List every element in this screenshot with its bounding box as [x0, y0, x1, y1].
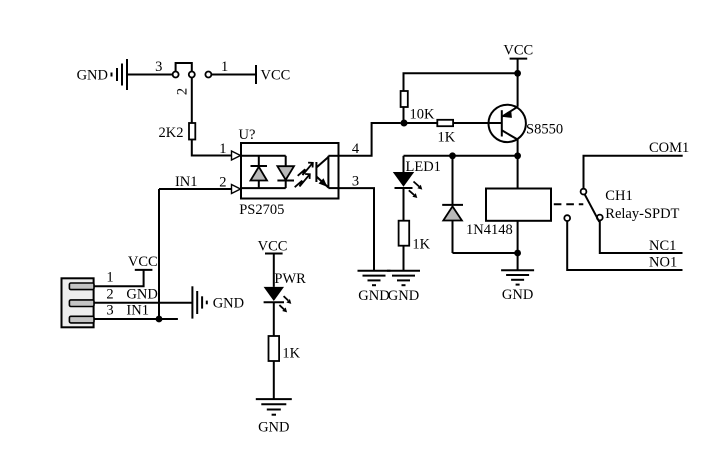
svg-text:1: 1 — [219, 141, 226, 157]
svg-text:NC1: NC1 — [649, 238, 676, 254]
wire pin3 IN1 — [94, 318, 178, 320]
ground (relay) — [501, 270, 534, 284]
svg-text:1: 1 — [221, 59, 228, 75]
svg-text:GND: GND — [388, 288, 419, 304]
wire NO1 — [567, 221, 682, 271]
U? internal input rail top — [241, 155, 286, 157]
node junction relay bottom — [514, 250, 521, 257]
node junction 10K/1K — [401, 120, 408, 127]
U? light arrow lower — [295, 174, 310, 187]
wire VCC rail to 10K top — [404, 73, 518, 91]
wire 1K to Q1 base — [453, 122, 502, 124]
connector pin 1 pad — [69, 283, 94, 290]
ground (U? pin 3) — [358, 271, 391, 285]
svg-text:1K: 1K — [282, 345, 300, 361]
wire node to 1K — [404, 122, 438, 124]
optocoupler U? box — [241, 143, 339, 199]
node junction at VCC/emitter — [514, 70, 521, 77]
jumper pin 1 circle — [205, 72, 211, 78]
ground (sideways, connector) — [192, 286, 206, 318]
jumper pin 3 circle — [173, 72, 179, 78]
ground (PWR) — [256, 399, 292, 415]
svg-text:3: 3 — [155, 59, 162, 75]
svg-text:2: 2 — [106, 286, 113, 302]
svg-text:3: 3 — [352, 173, 359, 189]
node junction diode top — [449, 152, 456, 159]
power VCC (top-right) — [510, 59, 528, 74]
svg-text:GND: GND — [213, 295, 244, 311]
svg-text:2K2: 2K2 — [159, 125, 184, 141]
relay NO contact circle — [564, 215, 570, 221]
power VCC (connector) — [135, 269, 153, 271]
svg-text:Relay-SPDT: Relay-SPDT — [605, 206, 679, 222]
node junction IN1 — [156, 316, 163, 323]
U? phototransistor — [316, 156, 338, 188]
svg-text:VCC: VCC — [261, 68, 291, 84]
svg-text:COM1: COM1 — [649, 140, 689, 156]
LED1 emission arrows — [409, 182, 423, 199]
dashed actuation link — [554, 203, 584, 205]
svg-text:IN1: IN1 — [126, 302, 149, 318]
svg-text:3: 3 — [106, 302, 113, 318]
wire jumper pin1 to VCC — [212, 74, 257, 76]
ground (LED1 1K) — [387, 271, 420, 285]
transistor Q1 S8550 (PNP) — [489, 73, 526, 156]
svg-text:10K: 10K — [410, 107, 436, 123]
svg-text:PWR: PWR — [274, 271, 306, 287]
wire 1K to ground — [403, 246, 405, 271]
wire ground to jumper pin 3 — [127, 74, 173, 76]
LED PWR — [264, 287, 284, 302]
svg-text:1K: 1K — [438, 130, 456, 146]
wire pin1 to VCC — [94, 270, 144, 286]
resistor 1K (PWR) — [269, 336, 280, 361]
svg-text:CH1: CH1 — [605, 188, 632, 204]
wire IN1 vertical — [158, 189, 160, 319]
resistor 1K (LED1) — [399, 221, 410, 246]
connector P1 body — [62, 278, 94, 327]
U? pin 2 arrow — [232, 185, 241, 194]
svg-text:GND: GND — [502, 287, 533, 303]
svg-text:1: 1 — [106, 270, 113, 286]
wire jumper pin2 down — [191, 78, 193, 123]
svg-text:1N4148: 1N4148 — [466, 222, 513, 238]
wire COM1 — [584, 156, 683, 189]
wire 10K bottom to node — [403, 107, 405, 123]
jumper cap bracket — [176, 63, 192, 71]
LED LED1 — [393, 156, 414, 188]
svg-text:GND: GND — [358, 288, 389, 304]
resistor 1K (base) — [437, 120, 453, 126]
wire NC1 — [600, 220, 683, 253]
svg-text:GND: GND — [258, 419, 289, 435]
power VCC bar (top-left) — [255, 65, 257, 84]
wire collector rail — [404, 155, 518, 157]
svg-text:GND: GND — [126, 286, 157, 302]
wire IN1 to U? pin 2 — [159, 188, 231, 190]
svg-text:NO1: NO1 — [649, 254, 677, 270]
svg-text:2: 2 — [219, 175, 226, 191]
relay NC contact circle — [597, 215, 603, 221]
wire 2K2 to U? pin 1 — [192, 140, 231, 156]
U? internal LED left (pointing up) — [251, 156, 268, 188]
connector pin 3 pad — [69, 316, 94, 323]
svg-text:VCC: VCC — [128, 254, 158, 270]
svg-text:2: 2 — [175, 88, 191, 95]
svg-text:U?: U? — [239, 127, 256, 143]
svg-text:IN1: IN1 — [175, 174, 198, 190]
wire diode bottom to relay bottom — [453, 252, 518, 254]
wire U? pin 3 to ground — [339, 188, 375, 271]
svg-text:1K: 1K — [412, 236, 430, 252]
U? pin 1 arrow — [232, 151, 241, 160]
U? internal LED right (pointing down) — [277, 156, 294, 188]
svg-text:GND: GND — [77, 68, 108, 84]
U? internal input rail bottom — [241, 187, 286, 189]
node junction collector — [514, 152, 521, 159]
svg-text:S8550: S8550 — [526, 122, 563, 138]
resistor 2K2 — [189, 123, 195, 140]
power VCC (PWR) — [265, 254, 283, 287]
relay blade — [585, 194, 600, 222]
wire U? pin 4 to 10K node — [339, 123, 401, 156]
wire pin2 to ground — [94, 302, 192, 304]
U? light arrow upper — [298, 163, 313, 176]
relay common contact circle — [581, 189, 587, 195]
resistor 10K — [401, 91, 408, 107]
diode D1 1N4148 — [442, 156, 463, 253]
wire 1K to ground — [273, 361, 275, 399]
connector pin 2 pad — [69, 300, 94, 307]
relay coil CH1 — [486, 156, 551, 253]
svg-text:VCC: VCC — [258, 239, 288, 255]
wire relay bottom to ground — [517, 253, 519, 270]
jumper pin 2 circle — [189, 72, 195, 78]
PWR LED emission arrows — [279, 296, 291, 312]
wire PWR LED to 1K — [273, 302, 275, 336]
ground (sideways, top-left) — [112, 59, 128, 90]
svg-text:PS2705: PS2705 — [239, 202, 284, 218]
svg-text:VCC: VCC — [503, 43, 533, 59]
wire LED1 to 1K — [403, 188, 405, 221]
